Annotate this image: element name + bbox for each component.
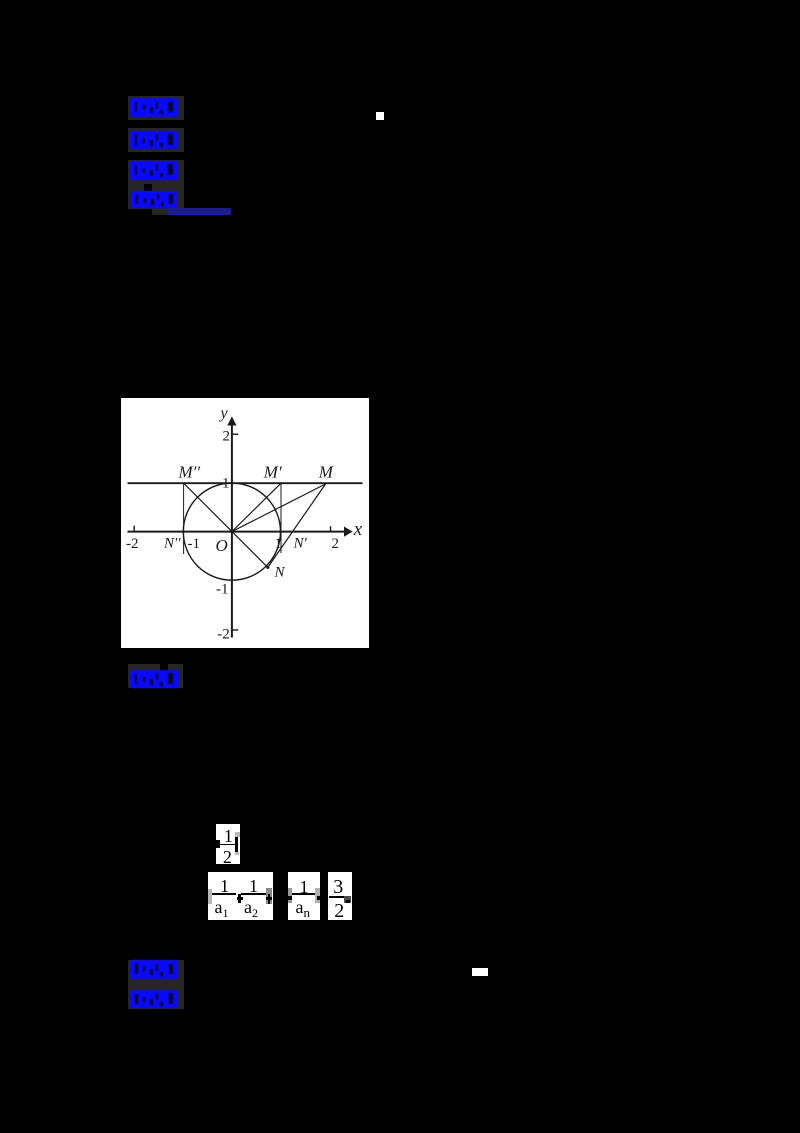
point N dot (266, 565, 269, 568)
svg-text:-1: -1 (216, 581, 229, 597)
svg-text:O: O (215, 536, 227, 555)
svg-text:-2: -2 (126, 535, 139, 551)
small white square (376, 112, 384, 120)
unit circle (183, 483, 280, 580)
svg-text:M′′: M′′ (177, 462, 200, 481)
black notch top of mid label (160, 664, 168, 672)
tick x=+2 (329, 526, 331, 531)
line O to M (231, 484, 325, 532)
blue label 3 (130, 161, 178, 180)
x axis (127, 530, 346, 532)
blue label bottom 2 (130, 990, 178, 1009)
line M'' through O to N (183, 483, 267, 567)
tick x=-2 (133, 525, 135, 531)
figure panel (121, 398, 370, 648)
svg-text:N′′: N′′ (163, 535, 181, 551)
blue label 1 (130, 98, 179, 117)
blue label mid (130, 670, 179, 689)
svg-text:N′: N′ (292, 535, 307, 551)
svg-text:M: M (317, 462, 333, 481)
gray highlight box behind label row 1 (128, 96, 184, 120)
svg-text:-2: -2 (217, 626, 230, 642)
fraction box 2: 1/a1 + 1/a2 (208, 872, 273, 920)
tangent line y=1 (127, 482, 362, 484)
svg-text:N: N (273, 564, 285, 580)
gray block + plus at right edge (266, 888, 273, 904)
navy underline bar (168, 208, 232, 215)
dark gray square + black dot right (344, 896, 350, 903)
black fragment left (216, 840, 220, 848)
fraction box 1: 1/2 (216, 824, 240, 864)
tick y=+2 (231, 433, 237, 435)
svg-text:x: x (352, 518, 362, 539)
y axis (230, 424, 232, 638)
gray highlight box behind mid label (128, 664, 184, 688)
x arrowhead (344, 526, 353, 536)
tick y=-2 (231, 629, 237, 631)
gray + black fragments at edges (288, 888, 292, 903)
vertical segment x=-1 (182, 483, 184, 554)
blue label bottom 1 (130, 960, 178, 979)
gray highlight box behind bottom labels (128, 960, 184, 1009)
fraction box 4: 3/2 (328, 872, 352, 920)
svg-text:1: 1 (222, 475, 230, 491)
svg-text:2: 2 (222, 428, 230, 444)
svg-text:-1: -1 (187, 535, 200, 551)
white dash (472, 968, 488, 976)
svg-text:y: y (218, 404, 228, 421)
line O to M' (231, 483, 280, 531)
black notch between labels 3 and 4 (144, 184, 152, 191)
vertical segment x=+1 (280, 483, 282, 553)
black fragment right (235, 837, 239, 852)
svg-text:1: 1 (274, 536, 282, 552)
svg-text:2: 2 (331, 536, 339, 552)
fraction box 3: 1/an (288, 872, 320, 920)
svg-text:M′: M′ (262, 462, 281, 481)
gray highlight box behind label rows 3-4 (128, 160, 184, 210)
y arrowhead (227, 416, 236, 425)
line M to N (267, 484, 325, 567)
blue label 2 (130, 131, 179, 150)
gray highlight box behind label row 2 (128, 128, 184, 152)
blue label 4 (131, 191, 177, 209)
gray underline stub (152, 209, 168, 216)
